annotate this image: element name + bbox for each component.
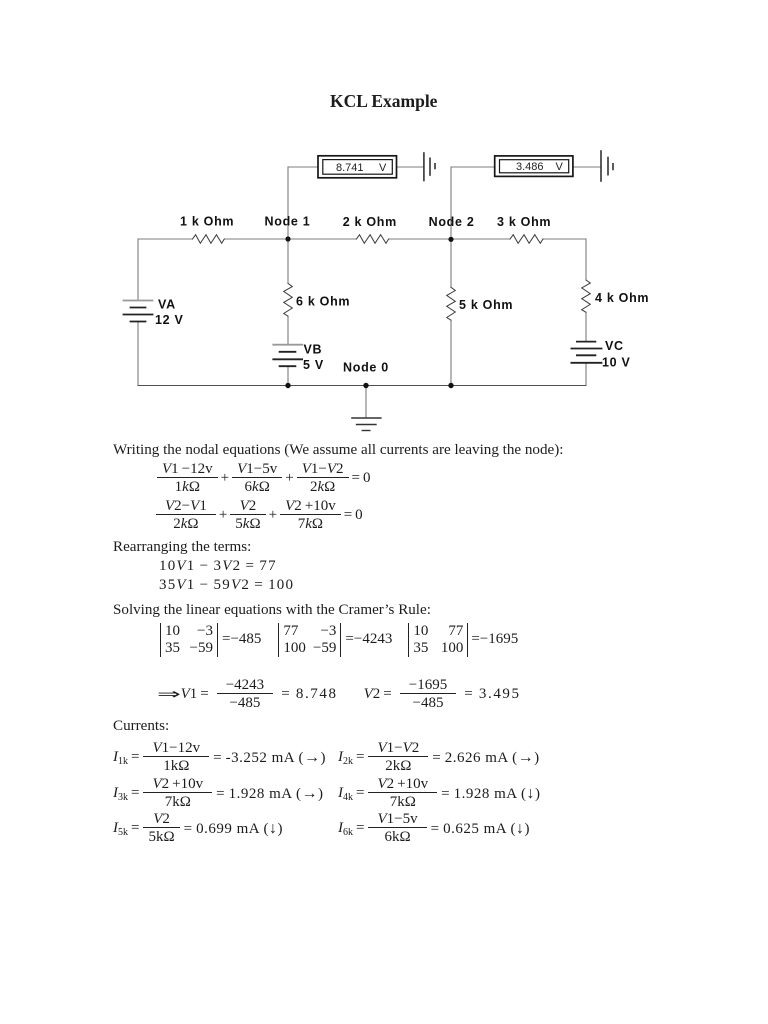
label Node 0	[343, 361, 389, 375]
paragraph: currents	[113, 718, 169, 735]
svg-text:Node 0: Node 0	[343, 361, 389, 375]
current I3k	[113, 776, 324, 811]
current I1k	[113, 740, 326, 775]
current I4k	[338, 776, 541, 811]
ground VM1	[424, 153, 435, 181]
label Node 1	[265, 215, 311, 229]
label 6 k Ohm	[296, 295, 350, 309]
wire VB to bottom	[287, 366, 289, 385]
paragraph: writing the nodal equations	[113, 442, 563, 459]
svg-text:V: V	[379, 162, 387, 174]
resistor R5 5k	[447, 287, 456, 320]
wire 6k to VB	[287, 316, 289, 345]
label 5 V	[303, 358, 324, 372]
wire 4k to VC	[585, 312, 587, 341]
resistor R1 1k	[193, 235, 225, 244]
wire node2 riser	[450, 167, 452, 239]
wire VM1 left lead	[288, 166, 318, 168]
wire ground stem	[365, 386, 367, 419]
wire right upper	[585, 239, 587, 280]
label VA	[158, 298, 176, 312]
equation 10V1-3V2=77	[159, 558, 277, 575]
svg-text:5 k Ohm: 5 k Ohm	[459, 298, 513, 312]
ground main	[352, 418, 381, 431]
label 5 k Ohm	[459, 298, 513, 312]
equation 35V1-59V2=100	[159, 577, 294, 594]
label 10 V	[602, 356, 631, 370]
svg-text:12 V: 12 V	[155, 313, 184, 327]
resistor R3 3k	[510, 235, 543, 244]
current I6k	[338, 811, 530, 846]
svg-text:VA: VA	[158, 298, 176, 312]
svg-text:4 k Ohm: 4 k Ohm	[595, 291, 649, 305]
node dot bottom of node2 branch	[448, 383, 453, 388]
label 3 k Ohm	[497, 215, 551, 229]
voltmeter U1 box	[318, 156, 397, 178]
voltmeter U2 reading 3.486 V	[516, 161, 564, 173]
label 12 V	[155, 313, 184, 327]
current I2k	[338, 740, 540, 775]
title KCL Example	[330, 91, 437, 112]
svg-text:1 k Ohm: 1 k Ohm	[180, 215, 234, 229]
equation KCL node 2	[156, 498, 363, 532]
label Node 2	[429, 215, 475, 229]
label VC	[605, 339, 624, 353]
node dot N2	[448, 237, 453, 242]
svg-text:Node 2: Node 2	[429, 215, 475, 229]
current I5k	[113, 811, 283, 846]
ground VM2	[601, 151, 613, 181]
label 4 k Ohm	[595, 291, 649, 305]
wire top segment D	[543, 238, 586, 240]
wire top segment A	[138, 238, 193, 240]
paragraph: rearranging the terms	[113, 539, 251, 556]
svg-text:VC: VC	[605, 339, 624, 353]
wire VM2 right lead	[573, 166, 600, 168]
svg-text:10 V: 10 V	[602, 356, 631, 370]
determinant row	[160, 622, 518, 657]
svg-text:Node 1: Node 1	[265, 215, 311, 229]
label 2 k Ohm	[343, 215, 397, 229]
svg-text:3.486: 3.486	[516, 161, 544, 173]
svg-text:3 k Ohm: 3 k Ohm	[497, 215, 551, 229]
wire left upper	[137, 239, 139, 301]
node dot ground junction	[363, 383, 368, 388]
wire bottom rail	[138, 385, 586, 387]
svg-text:2 k Ohm: 2 k Ohm	[343, 215, 397, 229]
resistor R6 6k	[284, 283, 293, 316]
node dot N1	[285, 236, 290, 241]
battery VB	[273, 345, 302, 367]
equation KCL node 1	[157, 461, 371, 495]
wire 5k to bottom	[450, 320, 452, 385]
battery VA	[124, 301, 153, 322]
wire top segment C	[389, 238, 510, 240]
node dot bottom-left of VB branch	[285, 383, 290, 388]
result V1 V2	[157, 678, 521, 711]
wire node2 to 5k	[450, 239, 452, 287]
voltmeter U2 box	[495, 156, 573, 177]
wire top segment B	[224, 238, 356, 240]
svg-text:5 V: 5 V	[303, 358, 324, 372]
svg-text:6 k Ohm: 6 k Ohm	[296, 295, 350, 309]
resistor R2 2k	[356, 235, 388, 244]
resistor R4 4k	[582, 280, 591, 312]
paragraph: solving with Cramer's rule	[113, 602, 431, 619]
wire VM1 right lead	[397, 166, 424, 168]
label VB	[304, 343, 323, 357]
battery VC	[571, 342, 601, 363]
wire left lower	[137, 322, 139, 386]
voltmeter U1 reading 8.741 V	[336, 162, 387, 174]
svg-text:V: V	[556, 161, 564, 173]
wire node1 riser	[287, 167, 289, 239]
svg-text:8.741: 8.741	[336, 162, 364, 174]
label 1 k Ohm	[180, 215, 234, 229]
wire VM2 left lead	[451, 166, 495, 168]
svg-text:VB: VB	[304, 343, 323, 357]
wire node1 to 6k	[287, 239, 289, 283]
wire VC to bottom	[585, 363, 587, 386]
